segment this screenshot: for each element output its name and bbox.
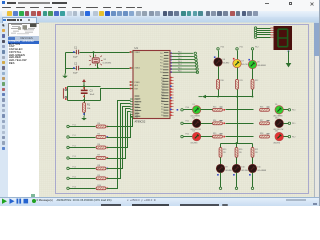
svg-text:R12: R12 — [255, 80, 258, 82]
svg-text:LED-RED: LED-RED — [273, 142, 281, 144]
svg-text:R9: R9 — [98, 175, 100, 177]
svg-text:P3.1: P3.1 — [186, 120, 190, 122]
svg-text:P2.4: P2.4 — [161, 89, 164, 91]
svg-text:P3.0: P3.0 — [161, 101, 164, 103]
svg-text:P0.2: P0.2 — [160, 59, 163, 61]
svg-text:P0.5: P0.5 — [160, 69, 163, 71]
svg-text:P3.5: P3.5 — [161, 115, 164, 117]
svg-text:220: 220 — [239, 152, 242, 154]
svg-text:P0.6: P0.6 — [178, 70, 182, 72]
svg-text:P0.2: P0.2 — [178, 58, 182, 60]
svg-text:D11: D11 — [275, 131, 278, 133]
svg-text:R4: R4 — [98, 123, 100, 125]
svg-text:220: 220 — [223, 152, 226, 154]
svg-text:P0.0: P0.0 — [178, 52, 182, 54]
svg-text:P1.3: P1.3 — [73, 156, 76, 158]
svg-text:30pF: 30pF — [73, 73, 78, 75]
svg-text:LED-GREEN: LED-GREEN — [257, 170, 266, 172]
svg-text:R15: R15 — [213, 133, 216, 135]
svg-text:R18: R18 — [260, 133, 263, 135]
svg-text:LED-GREEN: LED-GREEN — [257, 65, 266, 67]
svg-text:D10: D10 — [241, 167, 244, 169]
svg-text:R10: R10 — [98, 185, 101, 187]
svg-text:XTAL1: XTAL1 — [135, 51, 140, 54]
svg-text:D7: D7 — [242, 61, 244, 63]
svg-text:11.0592MHz: 11.0592MHz — [103, 63, 112, 65]
svg-text:P2.2: P2.2 — [161, 83, 164, 85]
svg-text:D9: D9 — [225, 167, 227, 169]
svg-text:P0.5: P0.5 — [178, 67, 182, 69]
svg-text:D6: D6 — [223, 59, 225, 61]
svg-text:10uF: 10uF — [90, 94, 95, 96]
svg-text:P3.2: P3.2 — [186, 134, 190, 136]
svg-text:LED-RED: LED-RED — [225, 170, 233, 172]
svg-text:P3.3: P3.3 — [161, 109, 164, 111]
svg-text:P0.1: P0.1 — [178, 55, 182, 57]
svg-text:P3.0: P3.0 — [221, 47, 225, 49]
svg-text:P3.2: P3.2 — [255, 47, 259, 49]
svg-text:P2.5: P2.5 — [161, 92, 164, 94]
svg-text:R7: R7 — [98, 155, 100, 157]
svg-text:P0.3: P0.3 — [178, 61, 182, 63]
svg-text:P3.1: P3.1 — [161, 103, 164, 105]
svg-text:R13: R13 — [213, 106, 216, 108]
svg-text:P3.1: P3.1 — [240, 47, 244, 49]
svg-text:P2.7: P2.7 — [161, 98, 164, 100]
svg-text:U1: U1 — [135, 46, 139, 50]
svg-text:P1.1: P1.1 — [73, 135, 76, 137]
svg-text:P0.1: P0.1 — [160, 56, 163, 58]
svg-text:R20: R20 — [239, 149, 242, 151]
svg-text:D9: D9 — [275, 104, 277, 106]
svg-text:P2.3: P2.3 — [161, 86, 164, 88]
svg-text:D2: D2 — [193, 117, 195, 119]
svg-text:D10: D10 — [275, 117, 278, 119]
svg-text:P0.4: P0.4 — [178, 64, 182, 66]
svg-text:R16: R16 — [260, 106, 263, 108]
svg-text:R14: R14 — [213, 120, 216, 122]
svg-text:R21: R21 — [255, 149, 258, 151]
svg-text:P3.1: P3.1 — [292, 123, 296, 125]
svg-text:P2.0: P2.0 — [161, 77, 164, 79]
svg-text:P2.6: P2.6 — [161, 95, 164, 97]
svg-text:P3.2: P3.2 — [161, 106, 164, 108]
svg-text:220: 220 — [255, 152, 258, 154]
svg-text:R19: R19 — [223, 149, 226, 151]
svg-text:P3.2: P3.2 — [292, 136, 296, 138]
svg-text:P1.7: P1.7 — [135, 117, 139, 119]
svg-text:XTAL2: XTAL2 — [135, 66, 140, 69]
svg-text:D8: D8 — [257, 62, 259, 64]
svg-text:P0.3: P0.3 — [160, 63, 163, 65]
svg-text:P2.1: P2.1 — [161, 80, 164, 82]
svg-text:LED-RED: LED-RED — [191, 142, 199, 144]
svg-text:AT89C52: AT89C52 — [135, 120, 146, 124]
svg-text:LED-RED: LED-RED — [223, 63, 231, 65]
svg-text:R17: R17 — [260, 120, 263, 122]
svg-text:P0.4: P0.4 — [160, 66, 163, 68]
svg-text:P3.0: P3.0 — [186, 107, 190, 109]
svg-text:P3.0: P3.0 — [292, 110, 296, 112]
svg-text:R8: R8 — [98, 165, 100, 167]
svg-text:R6: R6 — [98, 144, 100, 146]
svg-text:R10: R10 — [221, 80, 224, 82]
svg-text:R5: R5 — [98, 134, 100, 136]
svg-text:PSEN: PSEN — [135, 82, 141, 84]
svg-text:P0.0: P0.0 — [160, 53, 163, 55]
svg-text:P3.4: P3.4 — [161, 112, 164, 114]
svg-text:30pF: 30pF — [73, 57, 78, 59]
svg-text:R11: R11 — [240, 80, 243, 82]
svg-text:D3: D3 — [193, 131, 195, 133]
svg-text:D11: D11 — [257, 167, 260, 169]
svg-text:D1: D1 — [193, 104, 195, 106]
